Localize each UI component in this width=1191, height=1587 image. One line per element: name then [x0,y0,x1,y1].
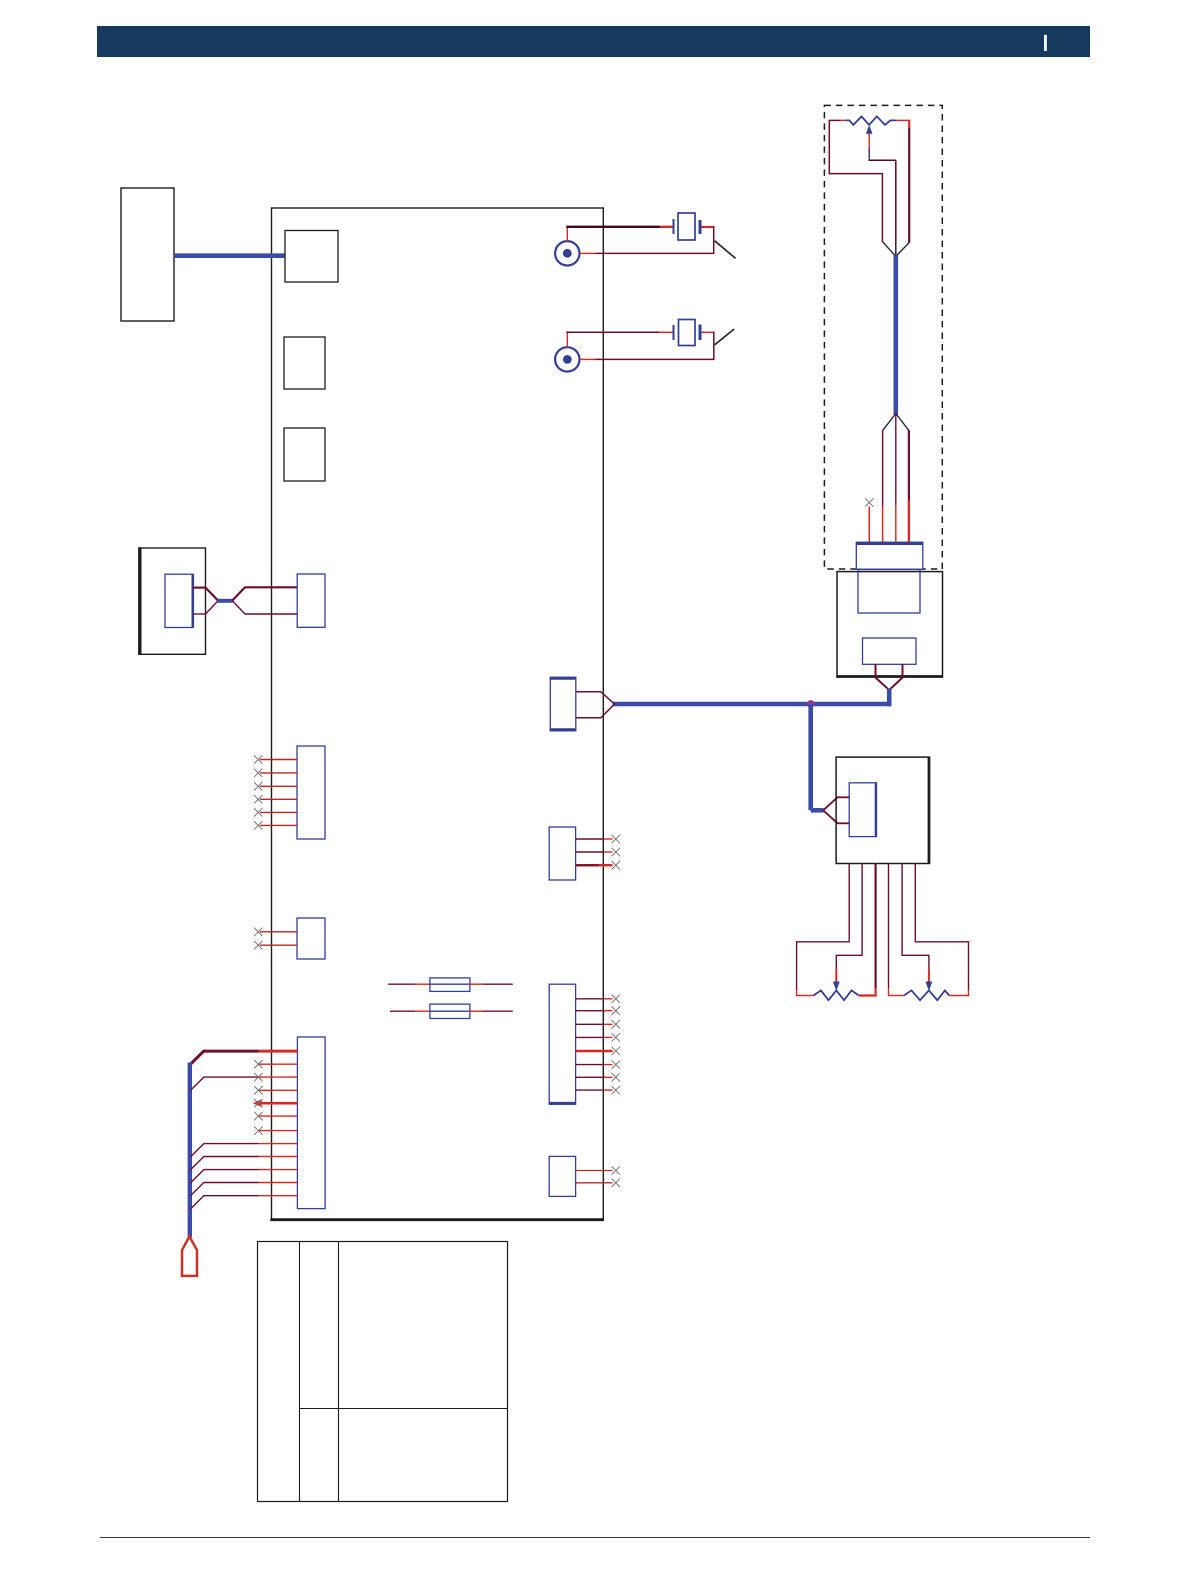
instrument cluster bottom edge [836,675,943,678]
connector X5 on control unit [297,574,325,627]
legend table row divider [300,1408,508,1410]
wire X8 pin 2 stub [576,1182,613,1184]
title bar [97,26,1090,57]
legend table column line 2 [338,1242,340,1502]
wire poti left lead (red) [841,119,847,121]
wire X4 pin 1 stub [260,931,297,933]
wire split right down (thick) [908,430,910,500]
switch S2 lever [715,329,735,345]
wire lamp E1 to buzzer H1 (dark) [566,226,660,228]
wire X9 stub thick with X and arrowhead [260,1102,298,1105]
sender connector [849,783,876,837]
wire X4 pin 2 stub [260,944,297,946]
wire split centre down [895,414,897,505]
buzzer H1 right plate [699,220,702,234]
wire X9 pin ground 5 [259,1195,298,1197]
wire X9 pin 3 through X to ground line [258,1076,297,1078]
wire X9 pin 1 (thick supply) [259,1050,298,1053]
wire poti right down (thick) [908,120,910,128]
potentiometer R1 wiper arrow [866,125,873,134]
wire wiper stem (dark) [868,148,870,161]
wire X3 pin 2 stub [260,772,297,774]
ground cable (thick blue) [188,1063,192,1238]
buzzer H2 left plate [673,325,675,340]
wire X7 pin 6 stub [576,1064,604,1066]
fuse F1 [388,983,415,985]
buzzer H1 left plate [673,219,675,234]
buzzer H1 body [678,213,695,240]
battery box G1 [121,188,174,321]
wire X3 pin 1 stub [260,759,297,761]
indicator lamp E1 (circle with dot) [555,241,579,265]
wire wiper stem (red) [868,133,870,148]
wire X3 pin 5 stub [260,811,297,813]
wire return to lamp E2 (red near lamp) [580,358,596,360]
wire wiper horizontal (dark maroon) [869,159,896,161]
connector X4 (2-pin, left) [297,918,325,959]
wire lamp E1 feed (red stub up) [566,227,568,242]
fuse F2 [390,1010,415,1012]
connector pin box A1-b [284,337,325,389]
connector X3 (6-pin, left) [297,746,325,839]
wire switch corner down (maroon) [713,332,715,360]
buzzer H2 right plate [699,325,702,341]
wire sender pin lower [837,822,850,824]
wire poti right lead (red) [897,119,910,121]
bus wire cluster down (thick blue) [887,689,892,707]
wire sender pigtail 2 (wiper left) [836,864,862,969]
wire X7 pin 1 stub [576,998,604,1000]
page number I [1044,35,1047,51]
connector pin box A1-a [285,231,338,283]
control unit bottom edge [270,1218,603,1221]
wire X6 pin 3 stub [576,864,599,867]
footer rule [100,1537,1090,1539]
bus wire horizontal (thick blue) [613,702,892,707]
wire battery to control unit (thick blue) [175,253,286,258]
wire X9 stub 5 with X [259,1130,298,1132]
harness merge chevron [882,242,896,257]
wire stub with X (not connected) [865,498,873,506]
instrument cluster P box [837,572,943,677]
wire X7 pin 4 stub [576,1036,604,1038]
wire X6 pin 1 stub [576,838,604,840]
wire X3 pin 6 stub [260,824,297,826]
wire sender pigtail 4 [888,864,890,989]
wire poti left down [829,120,882,242]
switch S1 lever [715,241,736,259]
wire switch corner down (maroon) [713,226,715,253]
twisted pair marker (blue) [217,599,232,603]
wire to X5 lower [232,601,245,615]
wire X8 pin 1 stub [576,1170,613,1172]
wire B2 pin lower [193,613,206,615]
bus branch down (thick blue) [808,704,813,810]
wire X2 pin lower [576,717,601,719]
cluster pin merge V [876,678,890,691]
wire to X5 upper [232,587,245,601]
wire X9 pin ground 3 [259,1169,298,1171]
connector X1 on instrument cluster [856,542,923,569]
wire lamp E2 to buzzer H2 (maroon) [566,331,659,333]
sensor B2 connector [165,574,193,627]
wire sender pigtail 6 [915,864,968,991]
battery terminal lug [182,1236,197,1276]
wire X9 pin ground 2 [259,1156,298,1158]
harness split chevron [883,414,896,431]
connector X7 (8-pin, right) [549,984,575,1104]
potentiometer R1 zigzag [846,116,897,125]
wire X2 pin upper [576,691,601,693]
resistor R3 wiper arrow [926,982,933,992]
resistor R2 zigzag (left sender element) [814,990,859,1000]
wire sender pigtail 3 (thick) [874,864,876,989]
connector X6 (3-pin, right) [549,827,575,880]
sender unit B1 box [836,757,929,863]
junction node [807,700,815,708]
wire red segment to H1 [660,226,673,228]
control unit A1 main box [272,208,604,1220]
wire H1 to switch corner (red) [702,226,715,228]
wire B2 pin upper [193,586,206,588]
wire sender pin upper [837,796,850,798]
wire return to lamp E2 (maroon) [596,358,715,360]
cluster output pins [875,664,877,678]
wire return to lamp E1 (maroon) [596,252,715,254]
buzzer H2 body [679,320,696,346]
wire lamp E2 feed (red stub up) [566,332,568,347]
wire sender pigtail 5 (wiper right) [902,864,929,969]
wire return to lamp E1 (red near lamp) [580,252,596,254]
wire wiper down to merge [895,160,897,241]
wire poti left lead (maroon) [829,119,840,121]
wire X7 pin 3 stub [576,1023,604,1025]
wire split left down [882,430,884,506]
cluster inner connector upper [858,570,920,614]
branch split V to sender [823,797,837,810]
wire X3 pin 3 stub [260,785,297,787]
wire X7 pin 8 stub [576,1089,604,1091]
connector X8 (2-pin, right) [549,1156,575,1196]
indicator lamp E2 (circle with dot) [555,347,579,371]
wire X9 stub 4 with X [259,1115,298,1117]
connector X9 (power connector) [297,1037,325,1209]
wire X3 pin 4 stub [260,798,297,800]
cable bundle (thick blue) [893,255,898,415]
dashed boundary of sensor harness [824,105,942,569]
wire X9 pin ground 1 [259,1143,298,1145]
resistor R3 zigzag (right sender element) [904,990,949,1000]
wire X9 stub 3 with X [259,1089,298,1091]
resistor R2 wiper arrow [833,982,840,992]
wire X7 pin 7 stub [576,1076,604,1078]
connector pin box A1-c [284,428,325,481]
wire X7 pin 2 stub [576,1010,604,1012]
cluster inner connector lower [863,638,917,664]
wire X6 pin 2 stub [576,851,604,853]
wire H2 to switch corner (red) [702,331,715,333]
wire X7 pin 5 stub [576,1050,613,1053]
wire X9 pin ground 4 [259,1182,298,1184]
wire red segment to H2 [659,331,673,333]
wire X9 stub 2 with X [259,1063,298,1065]
wire sender pigtail 1 [797,864,850,991]
legend table column line 1 [299,1242,301,1502]
connector X2 on control unit [550,677,576,731]
sensor B2 outer box [139,548,206,654]
legend table frame [258,1242,508,1502]
